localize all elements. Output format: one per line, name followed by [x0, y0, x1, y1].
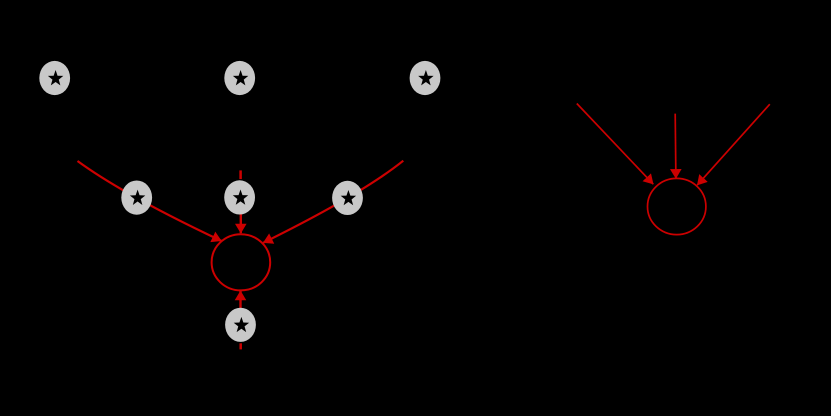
star node top-left [39, 61, 70, 95]
edge bottom-vertical up into aggregator (left subfigure) [239, 291, 241, 308]
aggregator circle (right subfigure) [648, 178, 706, 234]
edge middle-vertical into aggregator (left subfigure) [240, 212, 242, 233]
star node mid-left (on left diagonal edge) [121, 181, 152, 215]
edge right-diagonal into aggregator (left subfigure) [263, 161, 403, 243]
star node top-right [410, 61, 441, 95]
edge middle-vertical into aggregator (right subfigure) [674, 114, 677, 179]
edge left-diagonal into aggregator (left subfigure) [78, 161, 222, 241]
star node top-middle [224, 61, 255, 95]
aggregator circle (left subfigure) [212, 234, 271, 290]
dashed stub below bottom attention node [239, 343, 242, 349]
edge right-diagonal into aggregator (right subfigure) [697, 104, 770, 185]
edge left-diagonal into aggregator (right subfigure) [577, 104, 654, 185]
star node mid-middle (on vertical edge) [224, 180, 255, 214]
star node bottom (below aggregator) [225, 308, 256, 342]
star node mid-right (on right diagonal edge) [332, 181, 363, 215]
dashed stub above middle attention node [239, 170, 242, 179]
